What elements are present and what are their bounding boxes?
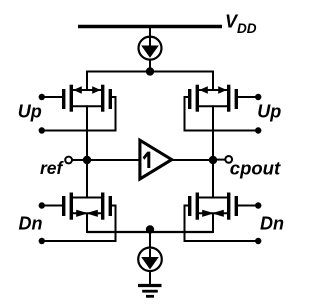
gate bar (188, 89, 191, 109)
wire Up terminal to M2 right gate (238, 96, 259, 98)
source arrowhead right (218, 86, 227, 93)
channel bar (70, 85, 73, 112)
channel bar (227, 85, 230, 112)
source arrowhead left (202, 210, 214, 217)
svg-text:Dn: Dn (19, 214, 43, 234)
wire top source node (87, 72, 213, 92)
source arrowhead left (76, 210, 88, 217)
VDD power rail (78, 25, 222, 28)
terminal dot Dn bottom right (255, 238, 261, 244)
channel bar (196, 193, 199, 220)
source arrowhead left (73, 86, 82, 93)
wire I1 to top node (149, 59, 151, 72)
wire M3 source to bottom rail (86, 213, 88, 233)
terminal dot Dn top left (39, 202, 45, 208)
wire bottom tail node rail (87, 231, 213, 233)
wire Dn terminal to M4 right gate (238, 205, 259, 207)
wire M4 source to bottom rail (212, 213, 214, 233)
wire M1 right gate wrap to lower Up terminal (41, 97, 116, 131)
channel bar (101, 85, 104, 112)
terminal dot Up bottom right (255, 127, 261, 133)
svg-text:ref: ref (40, 158, 65, 178)
svg-text:cpout: cpout (230, 158, 281, 179)
pin label 1 (143, 152, 151, 168)
transistor pair M3 (Dn switch, left NMOS pair) (62, 193, 112, 220)
source arrowhead right (86, 210, 98, 217)
wire M3 right gate wrap to lower Dn terminal (41, 206, 116, 242)
transistor pair M4 (Dn switch, right NMOS pair) (188, 193, 238, 220)
wire I2 to ground (149, 271, 151, 286)
wire M2 drain down to cpout node and M4 (212, 105, 214, 198)
source arrow shaft (73, 89, 101, 91)
wire Up terminal to M1 left gate (41, 96, 62, 98)
wire cpout node to terminal (213, 159, 225, 161)
wire VDD rail to current source I1 (149, 27, 151, 38)
channel bar (101, 193, 104, 220)
transistor pair M1 (Up switch, left PMOS pair) (62, 85, 112, 112)
current source I2 (down current) (138, 247, 162, 271)
wire buffer output to cpout node (172, 159, 214, 161)
ground (138, 286, 162, 297)
svg-text:Up: Up (257, 102, 281, 122)
source arrow shaft (199, 89, 227, 91)
wire Dn terminal to M3 left gate (41, 205, 62, 207)
drain connect line (73, 197, 101, 199)
drain connect line (73, 105, 101, 107)
terminal open circle cpout (225, 156, 232, 163)
svg-text:Dn: Dn (260, 214, 284, 234)
gate bar (62, 89, 65, 109)
channel bar (227, 193, 230, 220)
transistor pair M2 (Up switch, right PMOS pair) (188, 85, 238, 112)
wire M2 left gate wrap to lower Up terminal (185, 97, 260, 131)
junction bottom node (146, 225, 154, 233)
wire M1 drain down to ref node and M3 (86, 105, 88, 198)
drain connect line (199, 197, 227, 199)
current source I1 (up current) (139, 37, 162, 60)
drain connect line (199, 105, 227, 107)
gate bar (62, 196, 65, 216)
gate bar (235, 196, 238, 216)
gate bar (109, 89, 112, 109)
source arrow shaft (73, 212, 101, 214)
wire M4 left gate wrap to lower Dn terminal (185, 206, 260, 242)
terminal dot Dn top right (255, 202, 261, 208)
junction top node (146, 67, 154, 75)
junction ref node (83, 156, 91, 164)
channel bar (70, 193, 73, 220)
source arrowhead right (212, 210, 224, 217)
source arrowhead right (92, 86, 101, 93)
terminal dot Dn bottom left (39, 238, 45, 244)
terminal open circle ref (65, 157, 72, 164)
wire bottom node to current source I2 (149, 232, 151, 248)
source arrowhead left (199, 86, 208, 93)
gate bar (188, 196, 191, 216)
terminal dot Up top left (39, 94, 45, 100)
source arrow shaft (199, 212, 227, 214)
op-amp U1 (unity buffer) (140, 140, 172, 179)
channel bar (196, 85, 199, 112)
svg-text:Up: Up (18, 102, 42, 122)
junction cpout node (209, 156, 217, 164)
wire ref to buffer input (72, 159, 139, 161)
terminal dot Up bottom left (39, 127, 45, 133)
gate bar (235, 89, 238, 109)
gate bar (109, 196, 112, 216)
terminal dot Up top right (255, 94, 261, 100)
